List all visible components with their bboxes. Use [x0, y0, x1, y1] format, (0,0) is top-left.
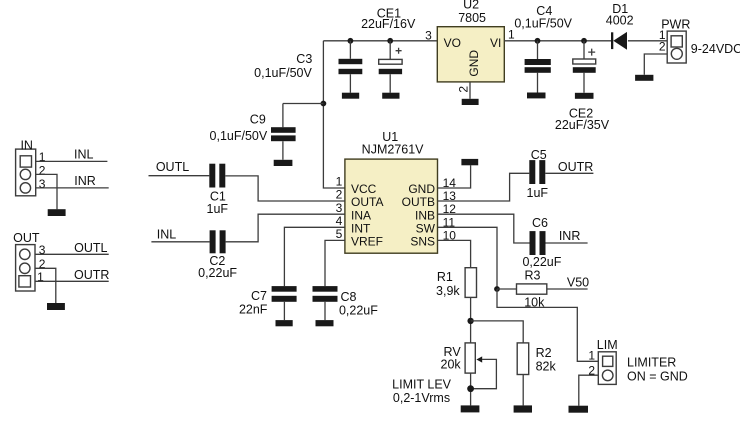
node R1-RV-R2 junction: [467, 318, 473, 324]
svg-text:INR: INR: [559, 229, 581, 243]
capacitor C5: [527, 148, 549, 200]
wire INL stub to C2: [151, 241, 209, 243]
capacitor CE2 electrolytic: [555, 41, 610, 132]
wire U2 GND pin 2: [469, 82, 471, 99]
svg-text:0,1uF/50V: 0,1uF/50V: [210, 129, 268, 143]
svg-text:VREF: VREF: [351, 235, 383, 249]
svg-text:INA: INA: [351, 208, 371, 222]
connector PWR: [659, 18, 740, 63]
svg-text:3: 3: [39, 177, 46, 191]
capacitor C9: [210, 104, 296, 160]
wire U1 pin 10 SNS to R1: [438, 240, 471, 267]
svg-text:OUTL: OUTL: [74, 241, 107, 255]
svg-text:5: 5: [336, 227, 343, 241]
wire IN pin 1 INL stub: [36, 160, 108, 162]
wire PWR pin 2 to ground: [644, 54, 667, 75]
svg-text:VCC: VCC: [351, 182, 377, 196]
svg-text:1: 1: [336, 175, 343, 189]
node C4 junction: [535, 38, 541, 44]
svg-text:0,1uF/50V: 0,1uF/50V: [514, 16, 572, 30]
resistor R3: [497, 268, 547, 309]
wire R3 to V50: [547, 288, 588, 290]
svg-text:22nF: 22nF: [239, 303, 268, 317]
wire U1 pin 14 GND up: [438, 165, 471, 188]
wire U1 pin 12 INB to C6: [438, 214, 530, 243]
svg-text:PWR: PWR: [661, 18, 690, 32]
wire RV bottom to ground: [470, 373, 472, 405]
wire C1 to U1 pin 2 OUTA: [225, 176, 345, 201]
wire junction to R2: [471, 321, 524, 343]
svg-text:GND: GND: [467, 50, 481, 77]
wire IN pin 2 to ground: [36, 174, 57, 209]
capacitor C3: [254, 41, 362, 93]
svg-text:OUTB: OUTB: [402, 195, 435, 209]
capacitor C2: [198, 230, 237, 280]
ground C8: [316, 320, 334, 326]
svg-text:82k: 82k: [536, 360, 557, 374]
svg-text:OUTR: OUTR: [558, 160, 593, 174]
svg-text:SNS: SNS: [410, 235, 435, 249]
ground CE2: [575, 93, 594, 99]
svg-text:C8: C8: [341, 290, 357, 304]
ground C9: [274, 160, 293, 166]
svg-text:INT: INT: [351, 222, 371, 236]
svg-text:2: 2: [659, 39, 666, 53]
wire 5V rail from corner to U2 VO: [323, 40, 437, 42]
svg-text:0,2-1Vrms: 0,2-1Vrms: [393, 391, 450, 405]
svg-text:0,22uF: 0,22uF: [339, 304, 378, 318]
capacitor C6: [522, 216, 561, 269]
svg-text:INL: INL: [74, 148, 94, 162]
ground U1 (bar above): [461, 159, 478, 165]
ground LIM: [569, 406, 589, 413]
wire LIM pin 2 to ground: [579, 375, 599, 406]
ground R2: [514, 405, 532, 412]
capacitor C4: [514, 4, 572, 93]
wire R1 bottom to RV junction: [470, 297, 472, 343]
node CE2 junction: [581, 38, 587, 44]
wire rail D1 to PWR: [628, 40, 667, 42]
op-amp U1 NJM2761V: [345, 130, 438, 253]
wire R2 bottom to ground: [522, 375, 524, 406]
wire OUT pin 1 OUTR stub: [35, 280, 109, 282]
svg-text:V50: V50: [567, 276, 589, 290]
svg-text:OUT: OUT: [13, 231, 40, 245]
ground PWR: [635, 75, 653, 81]
svg-text:OUTL: OUTL: [156, 160, 189, 174]
svg-text:INB: INB: [415, 208, 435, 222]
ground C3: [342, 93, 359, 99]
node RV wiper junction: [467, 385, 474, 392]
svg-text:OUTA: OUTA: [351, 195, 383, 209]
wire C9 branch: [283, 103, 324, 105]
svg-text:4002: 4002: [606, 13, 634, 27]
wire C5 to OUTR: [545, 172, 593, 174]
connector IN: [16, 138, 46, 195]
svg-text:1: 1: [588, 348, 595, 362]
resistor R1: [436, 268, 476, 298]
connector LIM: [588, 338, 617, 385]
svg-text:3: 3: [425, 28, 432, 42]
connector OUT: [13, 231, 46, 291]
svg-text:22uF/16V: 22uF/16V: [361, 17, 416, 31]
wire OUTL stub to C1: [149, 175, 210, 177]
ground IN: [48, 209, 66, 216]
ground OUT: [47, 303, 65, 310]
svg-text:3,9k: 3,9k: [436, 284, 460, 298]
svg-text:C7: C7: [251, 289, 267, 303]
svg-text:INL: INL: [157, 227, 177, 241]
diode D1 4002: [606, 2, 634, 50]
svg-text:R3: R3: [525, 268, 541, 282]
wire SW junction to LIM pin 1: [497, 289, 598, 361]
svg-text:NJM2761V: NJM2761V: [362, 143, 424, 157]
capacitor C8: [313, 286, 379, 320]
svg-text:22uF/35V: 22uF/35V: [555, 118, 610, 132]
svg-text:VI: VI: [490, 36, 501, 50]
wire OUT pin 3 OUTL stub: [35, 253, 109, 255]
svg-text:INR: INR: [74, 174, 96, 188]
svg-text:2: 2: [39, 164, 46, 178]
node C9 junction: [321, 101, 327, 107]
node SW-R3 junction: [494, 286, 500, 292]
svg-text:IN: IN: [20, 138, 33, 152]
wire C6 to INR: [546, 242, 588, 244]
svg-text:VO: VO: [444, 36, 461, 50]
svg-text:LIM: LIM: [597, 338, 618, 352]
ground C7: [276, 320, 293, 326]
svg-text:C5: C5: [531, 148, 547, 162]
wire C2 to U1 pin 3 INA: [226, 214, 345, 242]
svg-text:3: 3: [336, 201, 343, 215]
svg-text:0,22uF: 0,22uF: [198, 266, 237, 280]
svg-text:C6: C6: [532, 216, 548, 230]
svg-text:20k: 20k: [441, 358, 462, 372]
regulator U2 7805: [425, 0, 515, 93]
svg-text:ON = GND: ON = GND: [627, 369, 688, 383]
wire U1 pin 4 INT to C7: [284, 227, 345, 286]
wire OUT pin 2 to ground: [35, 268, 56, 303]
svg-text:2: 2: [456, 86, 470, 93]
wire IN pin 3 INR stub: [36, 187, 109, 189]
svg-text:U2: U2: [463, 0, 479, 11]
svg-text:C3: C3: [296, 52, 312, 66]
svg-text:0,1uF/50V: 0,1uF/50V: [254, 66, 312, 80]
svg-text:LIMIT LEV: LIMIT LEV: [392, 378, 451, 392]
capacitor CE1 electrolytic: [361, 6, 416, 92]
svg-text:C9: C9: [250, 113, 266, 127]
ground CE1: [382, 93, 399, 99]
svg-text:SW: SW: [416, 222, 436, 236]
node CE1 junction: [387, 38, 393, 44]
wire VCC vertical feed to U1 pin 1: [323, 41, 345, 188]
resistor R2: [517, 343, 556, 375]
wire U1 pin 11 SW down: [438, 227, 498, 289]
wire U1 pin 13 OUTB to C5: [438, 173, 530, 201]
svg-text:OUTR: OUTR: [74, 268, 109, 282]
capacitor C7: [239, 286, 297, 320]
svg-text:1uF: 1uF: [527, 186, 549, 200]
ground C4: [527, 93, 546, 99]
ground U2: [462, 99, 479, 105]
svg-text:LIMITER: LIMITER: [627, 355, 676, 369]
wire U1 pin 5 VREF to C8: [325, 240, 345, 286]
svg-text:4: 4: [336, 214, 343, 228]
svg-text:R2: R2: [536, 346, 552, 360]
svg-text:GND: GND: [408, 182, 435, 196]
trimmer RV 20k: [441, 343, 497, 389]
svg-text:R1: R1: [437, 270, 453, 284]
svg-text:9-24VDC: 9-24VDC: [691, 42, 740, 56]
svg-text:7805: 7805: [458, 11, 486, 25]
svg-text:0,22uF: 0,22uF: [522, 255, 561, 269]
svg-text:2: 2: [336, 188, 343, 202]
wire rail U2 VI to D1: [504, 40, 611, 42]
node C3 junction: [348, 38, 354, 44]
ground RV: [461, 405, 480, 412]
svg-text:1uF: 1uF: [207, 202, 229, 216]
capacitor C1: [207, 164, 229, 216]
